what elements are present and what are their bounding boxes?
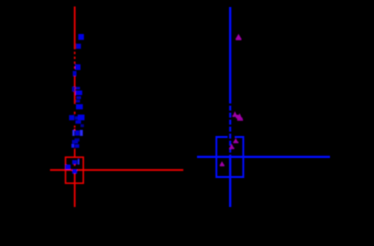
label: blue pin label blob y=64: [75, 64, 81, 70]
label: blue pin label blob y=124 dark: [81, 124, 84, 127]
wire: red vertical axis dash near y=126: [74, 126, 76, 128]
pin: purple pin arrow pair lower-right: [236, 113, 243, 120]
wire: red vertical axis dashed segment: [74, 52, 76, 76]
pin: purple pin arrow top of blue axis: [236, 34, 242, 40]
pin: purple pin arrow below box top: [233, 138, 238, 143]
label: blue pin label blob y=100: [76, 100, 80, 103]
label: blue label blob inside box top: [72, 160, 77, 164]
label: blue bracket label cluster y=131 right: [80, 130, 83, 136]
label: blue pin label blob y=120: [75, 120, 81, 123]
wire: blue vertical axis upper solid segment: [229, 7, 231, 104]
label: blue label blob y=144: [75, 144, 79, 148]
label: blue bright bar inside box: [78, 159, 80, 165]
wire: red vertical axis dash near y=112: [74, 112, 76, 114]
label: blue bracket label cluster y=131 mid: [75, 130, 79, 135]
label: blue pin label blob y=44: [76, 44, 81, 49]
label: blue bracket label cluster y=131 left: [72, 130, 74, 136]
label: blue label blob at box left edge: [65, 165, 70, 170]
pin: purple pin arrow pair upper-left: [232, 111, 237, 117]
label: blue pin label blob y=91: [75, 91, 82, 96]
wire: red vertical axis mid solid segment: [74, 76, 76, 104]
wire: blue vertical axis lower solid segment: [229, 157, 231, 207]
wire: red vertical axis dash inside box: [74, 162, 76, 166]
wire: blue horizontal axis: [197, 156, 330, 158]
label: blue label blob y=140: [72, 140, 78, 144]
pin: purple pin arrow inside box lower-left: [220, 161, 225, 166]
label: blue pin label blob y=34: [78, 34, 84, 40]
label: blue pin label blob y=116 mid: [75, 116, 78, 119]
label: blue label bright mark y=144: [71, 144, 74, 148]
pin: purple pin arrow above blue origin: [229, 144, 234, 149]
wire: red vertical axis lower solid segment into box: [74, 149, 76, 158]
label: blue pin label blob y=87 left: [72, 87, 75, 92]
label: blue label blob at origin crossing: [72, 169, 77, 173]
node: red selection box around left origin: [66, 157, 84, 183]
wire: red vertical axis upper solid segment: [74, 7, 76, 50]
label: blue pin label blob y=104: [76, 104, 83, 109]
label: blue label blob y=138: [75, 138, 80, 141]
label: blue pin label blob y=115 right: [78, 115, 85, 121]
node: blue selection box around right origin: [216, 137, 243, 177]
label: blue pin label blob y=71: [73, 71, 77, 76]
wire: red vertical axis bottom solid segment: [74, 169, 76, 207]
wire: red vertical axis dash near y=129: [74, 129, 76, 131]
wire: blue vertical axis dashed segment: [229, 106, 231, 158]
label: blue pin label blob y=96: [77, 96, 82, 99]
wire: red horizontal axis: [50, 169, 183, 171]
label: blue pin label blob y=87 right: [75, 87, 80, 90]
label: blue pin label blob y=115 left: [69, 115, 74, 120]
